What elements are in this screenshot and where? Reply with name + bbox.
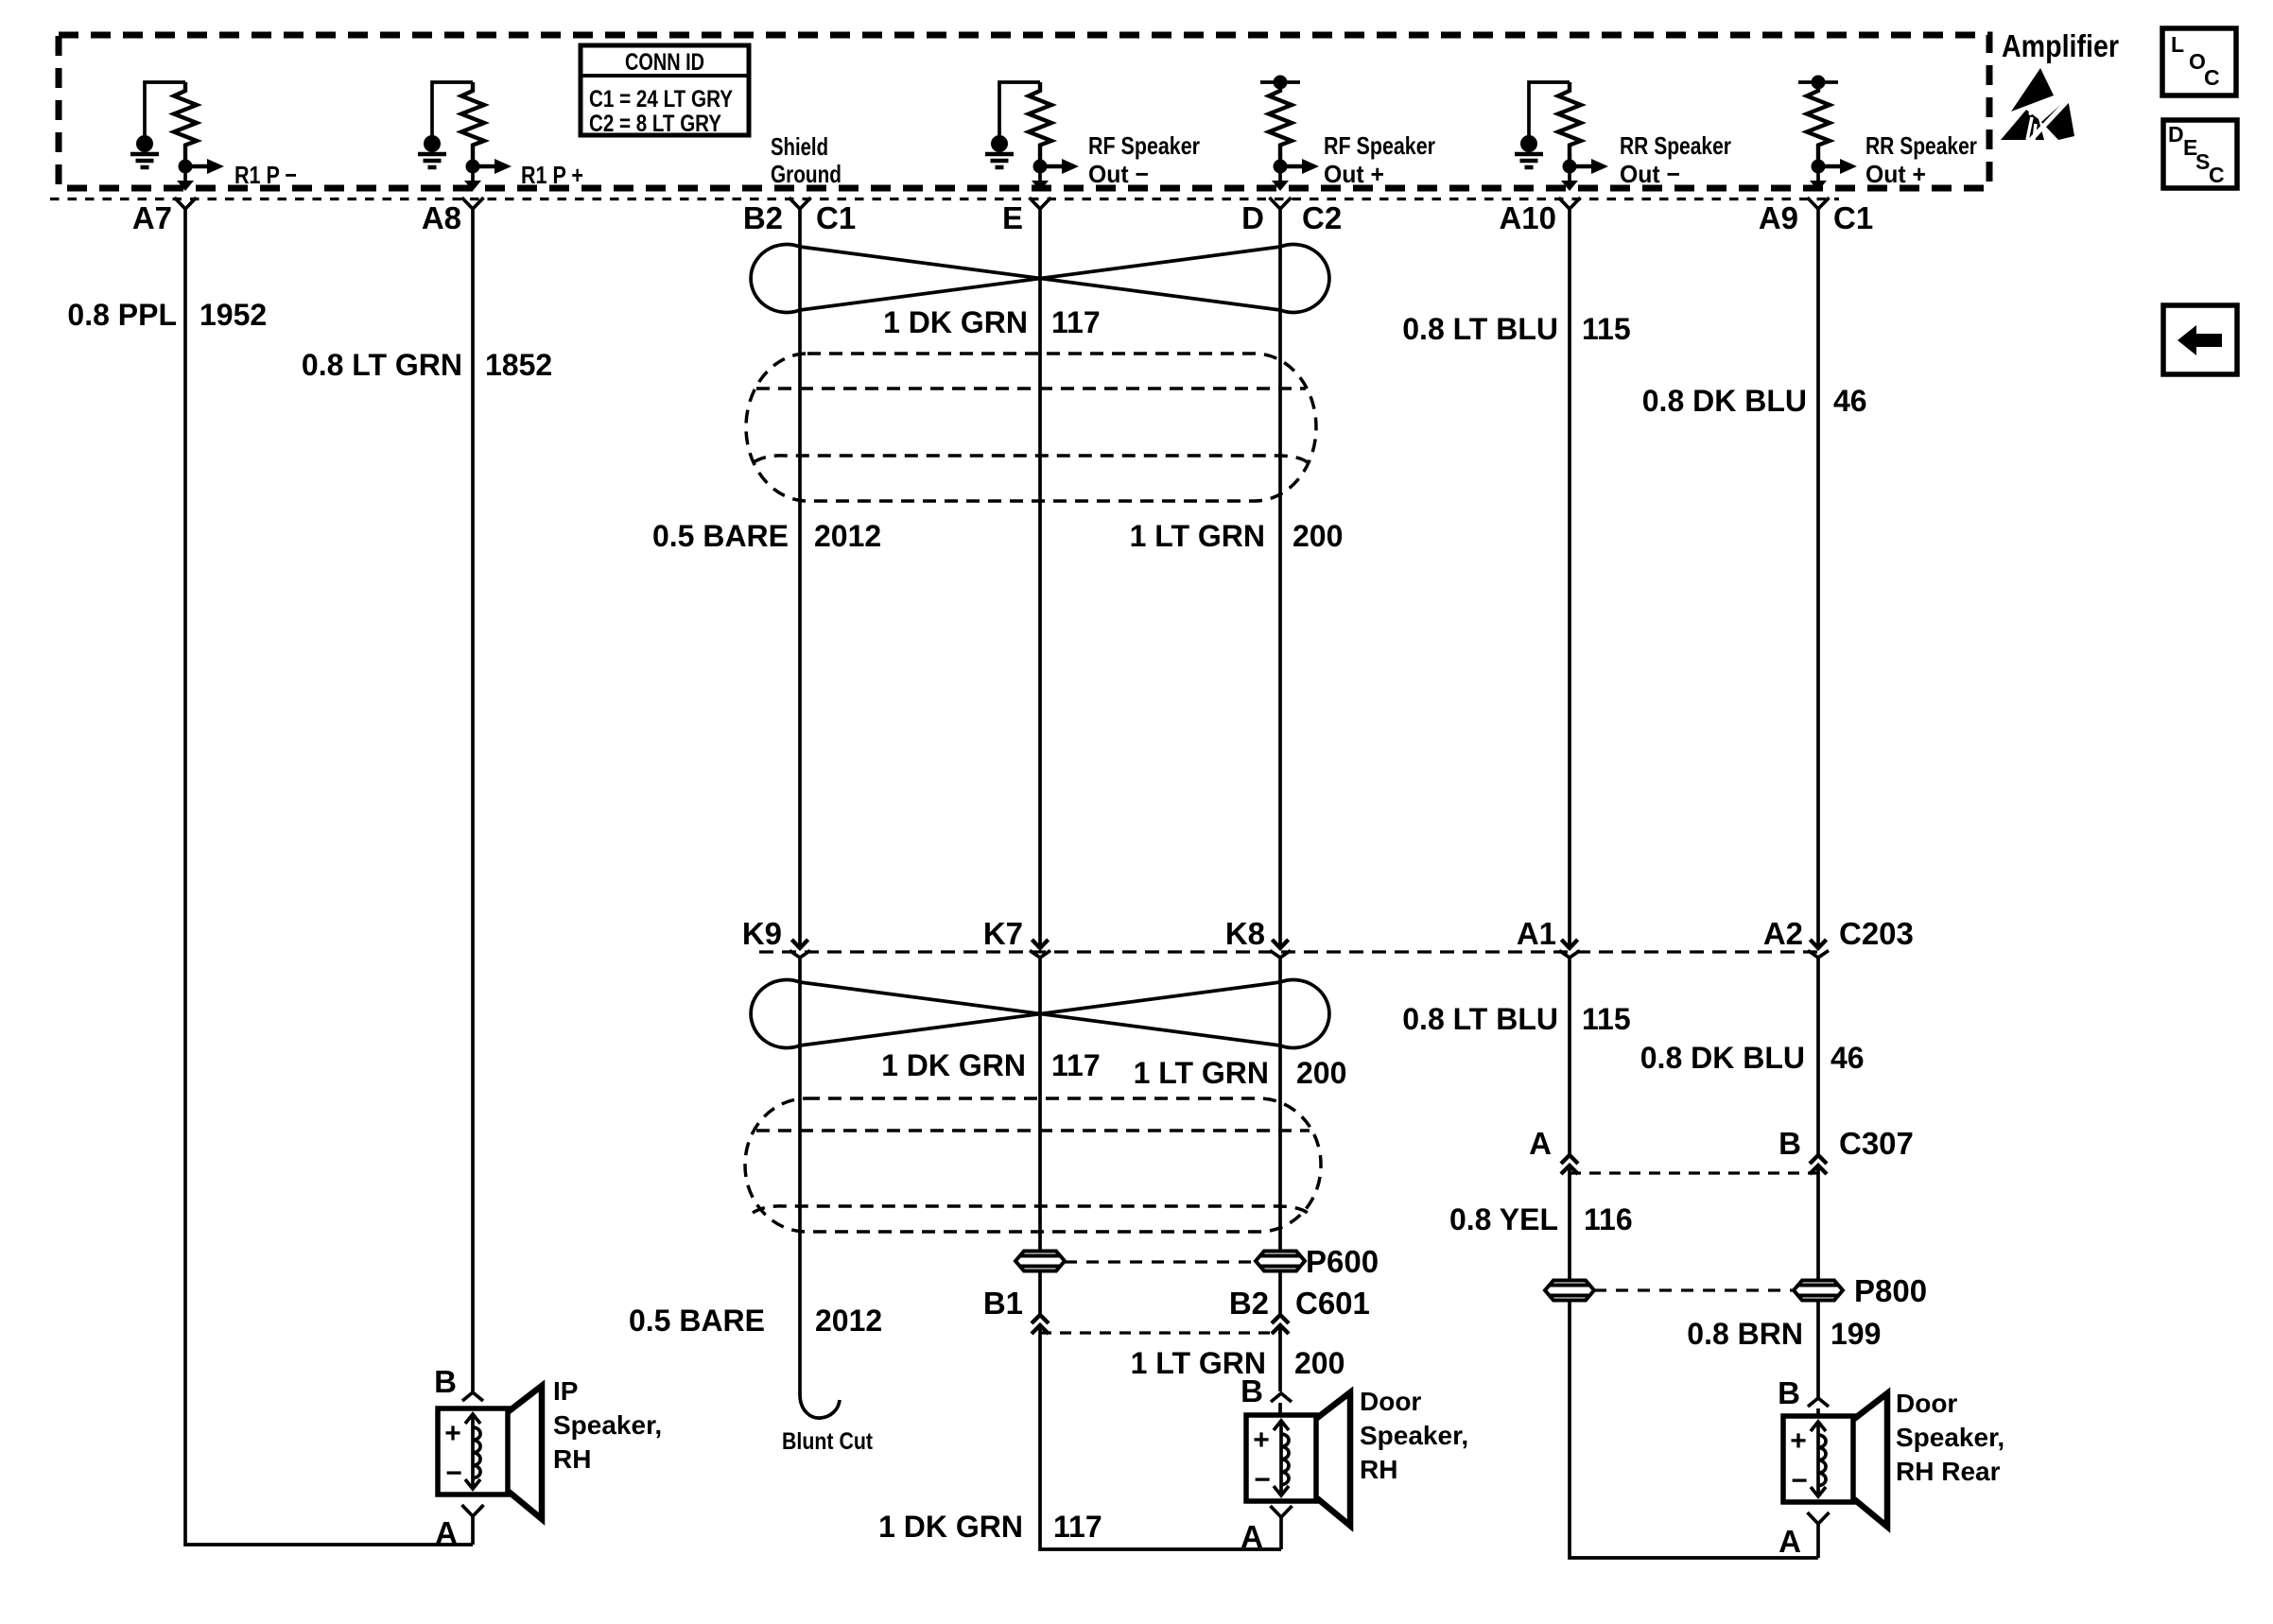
svg-text:Door: Door [1360, 1387, 1421, 1416]
svg-text:B2: B2 [1229, 1286, 1269, 1321]
wire A10 0.8 LT BLU 115 upper [1568, 209, 1571, 948]
svg-text:C203: C203 [1839, 916, 1914, 951]
svg-text:RF Speaker: RF Speaker [1088, 131, 1200, 160]
svg-text:D: D [1241, 200, 1264, 235]
wire shield 0.5 BARE lower with blunt cut hook [800, 965, 840, 1418]
svg-text:A7: A7 [132, 200, 172, 235]
svg-text:E: E [1002, 200, 1023, 235]
svg-text:Speaker,: Speaker, [553, 1410, 662, 1440]
amplifier dashed box [59, 35, 1989, 188]
svg-text:A9: A9 [1759, 200, 1798, 235]
svg-text:C: C [2204, 65, 2220, 90]
C307 pin A chevrons [1561, 1155, 1578, 1174]
svg-text:46: 46 [1831, 1041, 1865, 1075]
svg-text:1 LT GRN: 1 LT GRN [1130, 519, 1265, 553]
svg-text:K9: K9 [742, 916, 782, 951]
amp internal: R1 P- resistor with ground [130, 82, 224, 191]
svg-text:A: A [1529, 1126, 1552, 1161]
CONN ID box [581, 45, 749, 137]
svg-text:2012: 2012 [814, 519, 881, 553]
svg-text:C307: C307 [1839, 1126, 1914, 1161]
svg-text:2012: 2012 [815, 1304, 882, 1338]
svg-text:RH Rear: RH Rear [1896, 1457, 2001, 1486]
door speaker RH [1241, 1373, 1468, 1554]
svg-text:C2 = 8 LT GRY: C2 = 8 LT GRY [589, 111, 721, 137]
door speaker RH rear [1778, 1375, 2004, 1559]
C203 pin A2 arrows [1808, 940, 1829, 965]
LOC box [2162, 28, 2236, 95]
svg-text:117: 117 [1053, 1510, 1102, 1544]
svg-text:A2: A2 [1763, 916, 1803, 951]
svg-text:Door: Door [1896, 1389, 1957, 1418]
C307 pin B chevrons [1810, 1155, 1827, 1174]
svg-text:0.5 BARE: 0.5 BARE [652, 519, 789, 553]
svg-text:Shield: Shield [771, 132, 828, 161]
svg-text:Blunt Cut: Blunt Cut [782, 1428, 874, 1455]
svg-text:C1 = 24 LT GRY: C1 = 24 LT GRY [589, 86, 733, 112]
ESD icon [2001, 68, 2074, 144]
svg-text:K8: K8 [1225, 916, 1265, 951]
svg-text:A8: A8 [422, 200, 461, 235]
C601 pin B2 chevrons [1272, 1315, 1289, 1334]
svg-text:200: 200 [1296, 1056, 1346, 1090]
wire shield 0.5 BARE upper [798, 209, 802, 948]
svg-text:1 DK GRN: 1 DK GRN [883, 305, 1028, 339]
svg-text:0.8 DK BLU: 0.8 DK BLU [1640, 1041, 1805, 1075]
IP speaker RH [434, 1364, 662, 1550]
C203 pin K9 arrows [789, 940, 810, 965]
wire A9/C1 0.8 DK BLU 46 upper [1816, 209, 1820, 948]
svg-text:0.8 YEL: 0.8 YEL [1449, 1202, 1558, 1236]
pin A7 fork [175, 198, 197, 209]
svg-text:115: 115 [1582, 1002, 1631, 1036]
svg-text:B: B [434, 1364, 457, 1399]
svg-text:116: 116 [1584, 1202, 1633, 1236]
wire A8 0.8 LT GRN 1852 [471, 209, 475, 1391]
twisted pair upper [751, 245, 1329, 313]
svg-text:Ground: Ground [771, 160, 842, 188]
connector C601 dashed line [1040, 1331, 1280, 1334]
C601 pin B1 chevrons [1032, 1315, 1049, 1334]
svg-text:RH: RH [1360, 1455, 1397, 1484]
svg-text:IP: IP [553, 1376, 578, 1406]
svg-text:A1: A1 [1517, 916, 1556, 951]
pin A9/C1 fork [1808, 198, 1830, 209]
wire E 1 DK GRN 117 lower to door speaker A [1040, 965, 1281, 1549]
svg-text:Out +: Out + [1324, 160, 1384, 188]
svg-text:0.8 LT BLU: 0.8 LT BLU [1402, 312, 1558, 346]
twisted pair lower [751, 980, 1329, 1048]
svg-text:200: 200 [1294, 1346, 1345, 1380]
svg-text:1 DK GRN: 1 DK GRN [881, 1048, 1026, 1082]
DESC box [2163, 120, 2237, 188]
svg-text:RR Speaker: RR Speaker [1865, 131, 1977, 160]
svg-text:199: 199 [1831, 1317, 1881, 1351]
svg-text:115: 115 [1582, 312, 1631, 346]
svg-text:C1: C1 [816, 200, 856, 235]
svg-text:1 LT GRN: 1 LT GRN [1134, 1056, 1269, 1090]
wire E 1 DK GRN 117 upper [1038, 209, 1042, 948]
back arrow box [2163, 305, 2237, 374]
C203 pin K7 arrows [1030, 940, 1050, 965]
svg-text:A: A [1778, 1524, 1801, 1559]
svg-text:L: L [2171, 32, 2184, 57]
svg-text:1952: 1952 [200, 298, 267, 332]
wire D/C2 1 LT GRN 200 upper [1278, 209, 1282, 948]
P800 dashed link [1594, 1288, 1794, 1291]
svg-text:C: C [2209, 163, 2225, 187]
svg-text:P800: P800 [1854, 1273, 1927, 1308]
pin A10 fork [1559, 198, 1581, 209]
C203 pin K8 arrows [1270, 940, 1291, 965]
svg-text:C601: C601 [1295, 1286, 1370, 1321]
C203 pin A1 arrows [1559, 940, 1580, 965]
svg-text:C2: C2 [1302, 200, 1342, 235]
svg-text:B2: B2 [743, 200, 783, 235]
amp internal: RF Speaker Out - resistor with ground [985, 82, 1079, 191]
svg-text:Amplifier: Amplifier [2002, 28, 2119, 63]
svg-text:R1 P +: R1 P + [521, 161, 583, 189]
amp internal: RR Speaker Out - resistor with ground [1515, 82, 1608, 191]
svg-text:1 DK GRN: 1 DK GRN [878, 1510, 1023, 1544]
svg-text:B1: B1 [983, 1286, 1023, 1321]
svg-text:Out −: Out − [1620, 160, 1680, 188]
svg-text:0.8 LT GRN: 0.8 LT GRN [302, 348, 462, 382]
svg-text:0.5 BARE: 0.5 BARE [629, 1304, 765, 1338]
svg-text:B: B [1778, 1126, 1801, 1161]
svg-text:200: 200 [1293, 519, 1343, 553]
svg-text:A: A [1241, 1519, 1263, 1554]
P600 grommet right [1256, 1252, 1305, 1271]
svg-text:0.8 PPL: 0.8 PPL [67, 298, 177, 332]
svg-text:CONN ID: CONN ID [625, 49, 704, 76]
shield cylinder lower [745, 1098, 1321, 1232]
wire A7 0.8 PPL 1952 [185, 209, 473, 1545]
amp internal: R1 P+ resistor with ground [418, 82, 512, 191]
svg-text:C1: C1 [1833, 200, 1873, 235]
P600 grommet left [1015, 1252, 1065, 1271]
pin E fork [1030, 198, 1051, 209]
svg-text:P600: P600 [1306, 1244, 1379, 1279]
connector C307 dashed line [1570, 1171, 1818, 1174]
svg-text:K7: K7 [983, 916, 1023, 951]
pin D/C2 fork [1270, 198, 1292, 209]
wire D/C2 1 LT GRN 200 lower to door speaker B [1278, 965, 1282, 1415]
svg-text:Out −: Out − [1088, 160, 1149, 188]
svg-text:Out +: Out + [1865, 160, 1926, 188]
svg-text:RF Speaker: RF Speaker [1324, 131, 1435, 160]
svg-text:A: A [435, 1515, 458, 1550]
svg-text:117: 117 [1051, 305, 1101, 339]
pin B2/C1 fork [789, 198, 811, 209]
svg-text:B: B [1241, 1373, 1263, 1408]
svg-text:0.8 LT BLU: 0.8 LT BLU [1402, 1002, 1558, 1036]
svg-text:R1 P −: R1 P − [234, 161, 297, 189]
connector C203 dashed line [759, 950, 1818, 953]
svg-text:0.8 BRN: 0.8 BRN [1687, 1317, 1803, 1351]
svg-text:1852: 1852 [485, 348, 552, 382]
P800 grommet left [1545, 1281, 1594, 1301]
svg-text:B: B [1778, 1375, 1800, 1410]
amp internal: RR Speaker Out + resistor with junction [1798, 76, 1857, 192]
shield cylinder upper [746, 354, 1316, 501]
P600 dashed link [1065, 1260, 1256, 1263]
svg-text:Speaker,: Speaker, [1896, 1423, 2004, 1452]
wire A9 lower to rear speaker B [1816, 965, 1820, 1416]
svg-text:D: D [2168, 122, 2184, 147]
svg-text:RH: RH [553, 1444, 591, 1474]
wire A10 lower to rear speaker A [1570, 965, 1818, 1558]
svg-text:0.8 DK BLU: 0.8 DK BLU [1642, 384, 1807, 418]
pin A8 fork [462, 198, 484, 209]
svg-text:A10: A10 [1499, 200, 1556, 235]
P800 grommet right [1794, 1281, 1843, 1301]
svg-text:46: 46 [1833, 384, 1867, 418]
svg-text:Speaker,: Speaker, [1360, 1421, 1468, 1450]
amp internal: RF Speaker Out + resistor with junction [1260, 76, 1319, 192]
connector C1/C2 thin dashed line [50, 198, 1839, 200]
svg-text:117: 117 [1051, 1048, 1101, 1082]
svg-text:RR Speaker: RR Speaker [1620, 131, 1731, 160]
